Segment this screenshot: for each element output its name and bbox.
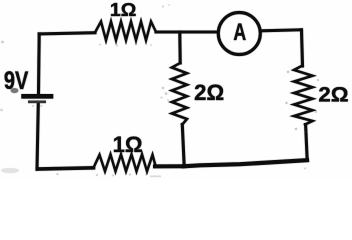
wire bottom right segment: [184, 160, 308, 166]
wire top-left horizontal: [39, 33, 95, 34]
wire ammeter to top-right corner: [262, 30, 302, 31]
wire bottom middle segment (node to R4): [155, 164, 184, 168]
wire left vertical upper (corner to battery top plate): [37, 34, 41, 94]
svg-text:2Ω: 2Ω: [194, 80, 224, 105]
wire right vertical lower: [306, 125, 308, 161]
wire R1 to node A1: [156, 30, 180, 33]
wire right vertical upper: [302, 30, 303, 66]
battery V1 short plate: [28, 101, 46, 104]
resistor R2 2ohm middle vertical zigzag: [172, 63, 187, 125]
resistor R4 1ohm bottom zigzag: [94, 154, 156, 171]
wire middle branch lower (R2 to bottom wire): [182, 125, 184, 167]
svg-text:A: A: [233, 19, 246, 46]
ammeter U1 circle: [218, 13, 260, 55]
svg-text:2Ω: 2Ω: [318, 83, 348, 107]
scan noise (decorative): [0, 4, 319, 177]
resistor R1 1ohm top zigzag: [95, 22, 156, 41]
wire node A1 to ammeter: [180, 30, 217, 33]
wire middle branch upper (node A1 down to R2): [178, 32, 181, 63]
battery V1 long plate: [21, 94, 53, 99]
resistor R3 2ohm right vertical zigzag: [294, 66, 313, 125]
wire bottom left segment: [37, 168, 93, 169]
svg-text:1Ω: 1Ω: [113, 132, 143, 157]
wire left vertical lower (battery bottom to corner): [37, 103, 38, 169]
svg-text:1Ω: 1Ω: [110, 0, 136, 20]
